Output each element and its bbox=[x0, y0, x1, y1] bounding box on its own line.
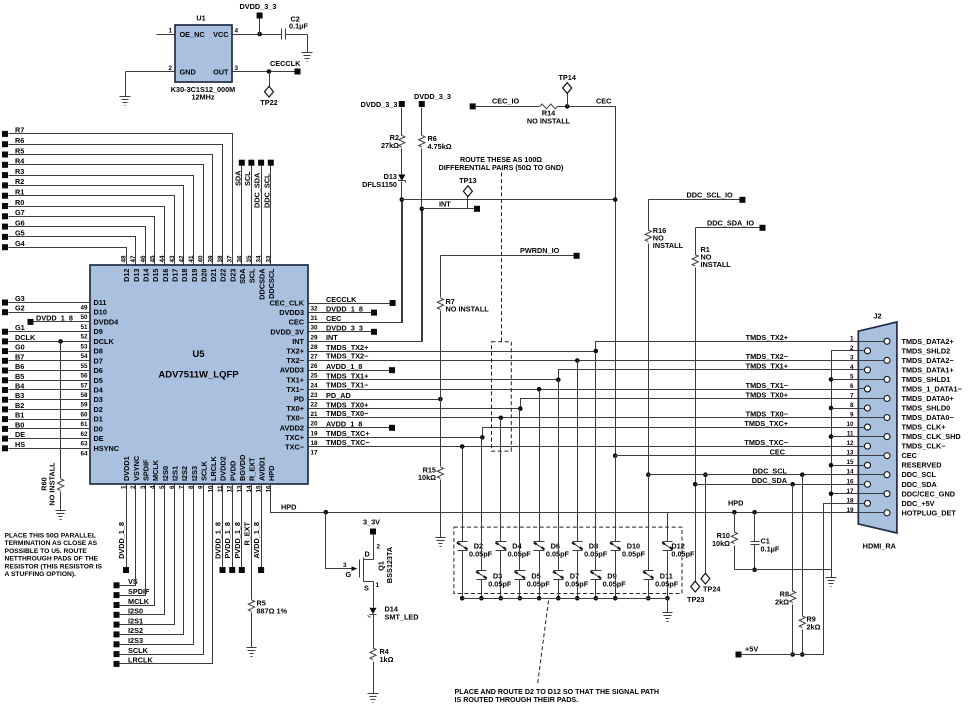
wire I2S3 bbox=[120, 485, 194, 645]
svg-text:MCLK: MCLK bbox=[128, 597, 150, 606]
label TMDS_TX1&#8722; at connector bbox=[746, 381, 788, 390]
pin 18 U5 TXC+ bbox=[285, 433, 318, 447]
wire R15 to ground bbox=[440, 480, 442, 538]
svg-text:TMDS_TXC+: TMDS_TXC+ bbox=[326, 429, 370, 438]
wire R9 bottom bbox=[800, 630, 805, 657]
node R4 bbox=[2, 157, 25, 168]
svg-text:MCLK: MCLK bbox=[151, 459, 160, 481]
svg-text:2: 2 bbox=[130, 485, 137, 489]
power DVDD_1_8 pin31 bbox=[371, 310, 377, 316]
svg-text:DE: DE bbox=[15, 430, 25, 439]
wire INT stub bbox=[422, 200, 475, 209]
wire SCL bbox=[251, 166, 253, 266]
pin 51 U5 DVDD4 bbox=[80, 317, 119, 331]
svg-text:VSYNC: VSYNC bbox=[132, 455, 141, 481]
wire CEC_IO bbox=[476, 106, 540, 108]
pin 50 U5 D10 bbox=[80, 308, 106, 322]
svg-text:52: 52 bbox=[80, 334, 88, 341]
resistor R4 1k bbox=[370, 647, 394, 664]
pin 47 U5 top bbox=[130, 255, 141, 282]
power PVDD_1_8 bbox=[223, 522, 235, 573]
junction CEC row13 bbox=[613, 453, 618, 458]
svg-text:19: 19 bbox=[311, 430, 319, 437]
svg-text:PLACE AND ROUTE D2 TO D12 SO T: PLACE AND ROUTE D2 TO D12 SO THAT THE SI… bbox=[455, 688, 660, 696]
label TMDS_TX0+ at connector bbox=[746, 390, 788, 399]
svg-text:DCLK: DCLK bbox=[94, 337, 115, 346]
wire DDC_SDA_IO bbox=[696, 219, 760, 228]
svg-text:46: 46 bbox=[140, 255, 147, 263]
svg-text:TMDS_DATA1+: TMDS_DATA1+ bbox=[902, 365, 954, 374]
diode D9 0.05pF bbox=[591, 571, 627, 589]
svg-text:TMDS_TX2−: TMDS_TX2− bbox=[746, 352, 788, 361]
svg-text:NETTHROUGH PADS OF THE: NETTHROUGH PADS OF THE bbox=[5, 556, 99, 563]
svg-text:DDC_SDA: DDC_SDA bbox=[902, 480, 938, 489]
svg-text:DDC_+5V: DDC_+5V bbox=[902, 499, 935, 508]
resistor R7 NO INSTALL bbox=[437, 297, 489, 314]
node B7 bbox=[2, 352, 24, 363]
svg-text:BGVDD: BGVDD bbox=[238, 455, 247, 481]
svg-text:D11: D11 bbox=[94, 298, 107, 307]
wire I2S2 bbox=[120, 485, 184, 635]
pin 56 U5 D6 bbox=[80, 366, 102, 380]
pin 13 U5 bottom bbox=[236, 455, 247, 493]
diode D10 0.05pF bbox=[610, 542, 646, 559]
svg-text:TP23: TP23 bbox=[687, 595, 704, 604]
node B6 bbox=[2, 362, 24, 373]
svg-text:27kΩ: 27kΩ bbox=[381, 141, 399, 150]
svg-text:B7: B7 bbox=[15, 352, 24, 361]
junction HPD C1 bbox=[752, 510, 757, 515]
svg-text:SCLK: SCLK bbox=[199, 460, 208, 481]
svg-text:13: 13 bbox=[846, 450, 854, 457]
pin 48 U5 top bbox=[121, 255, 132, 282]
svg-text:19: 19 bbox=[846, 507, 854, 514]
wire D12 column bbox=[667, 513, 669, 542]
wire R4 bbox=[9, 165, 204, 266]
wire D8 to bus bbox=[575, 551, 580, 601]
diode D4 0.05pF bbox=[496, 542, 532, 559]
svg-text:I2S3: I2S3 bbox=[190, 466, 199, 481]
wire D11 to bus bbox=[646, 580, 651, 601]
svg-text:PVDD_1_8: PVDD_1_8 bbox=[223, 522, 232, 559]
pin 1 J2 TMDS_DATA2+ bbox=[850, 335, 954, 346]
svg-text:B5: B5 bbox=[15, 372, 24, 381]
wire U1 pin 3 OUT bbox=[233, 65, 295, 74]
wire D3 column bbox=[481, 438, 483, 571]
svg-text:ADV7511W_LQFP: ADV7511W_LQFP bbox=[158, 370, 239, 381]
svg-text:4: 4 bbox=[149, 485, 156, 489]
svg-text:53: 53 bbox=[80, 343, 88, 350]
wire TMDS_TXC&#8722; bbox=[309, 438, 859, 449]
pin 19 U5 AVDD2 bbox=[280, 423, 318, 437]
ground C2 bbox=[302, 53, 313, 62]
wire B7 bbox=[9, 360, 91, 362]
svg-text:TMDS_TXC+: TMDS_TXC+ bbox=[744, 419, 788, 428]
wire pin13 supply bbox=[241, 485, 243, 568]
testpoint TP22 bbox=[260, 72, 277, 108]
wire R10 top bbox=[728, 499, 743, 533]
power DVDD_3_3 R2 bbox=[361, 100, 405, 136]
wire D7 to bus bbox=[556, 580, 561, 601]
svg-text:0.05pF: 0.05pF bbox=[565, 580, 589, 589]
node I2S3 bbox=[114, 636, 144, 647]
svg-text:DDC_SDA: DDC_SDA bbox=[752, 476, 788, 485]
resistor R6 4.75k bbox=[419, 134, 452, 151]
svg-text:28: 28 bbox=[311, 344, 319, 351]
wire R6 to INT bbox=[420, 149, 425, 342]
node DDC_SCL bbox=[262, 160, 274, 208]
svg-text:TMDS_TX0−: TMDS_TX0− bbox=[326, 409, 368, 418]
svg-text:DIFFERENTIAL PAIRS (50Ω TO GND: DIFFERENTIAL PAIRS (50Ω TO GND) bbox=[439, 164, 564, 172]
svg-text:D18: D18 bbox=[180, 269, 189, 282]
svg-text:CEC: CEC bbox=[902, 451, 918, 460]
pin 33 U5 top bbox=[265, 255, 276, 299]
pin 40 U5 top bbox=[198, 255, 209, 282]
wire DE bbox=[9, 438, 91, 440]
svg-text:48: 48 bbox=[121, 255, 128, 263]
ground shield bbox=[826, 578, 837, 587]
label TMDS_TX1+ at connector bbox=[746, 362, 788, 371]
wire D6 to bus bbox=[537, 551, 542, 601]
wire D7 column bbox=[558, 380, 560, 571]
pin 34 U5 top bbox=[256, 255, 267, 300]
power DVDD_3_3 R6 bbox=[414, 92, 451, 136]
svg-text:NO INSTALL: NO INSTALL bbox=[527, 117, 571, 126]
wire R6 bbox=[9, 145, 223, 266]
pin 61 U5 D1 bbox=[80, 415, 102, 429]
pin 5 U5 bottom bbox=[159, 466, 170, 489]
svg-text:PVDD: PVDD bbox=[228, 461, 237, 481]
wire R7-R15 bbox=[440, 311, 442, 467]
testpoint TP14 bbox=[558, 73, 576, 107]
svg-text:33: 33 bbox=[265, 255, 272, 263]
ground ESD array bbox=[663, 613, 673, 622]
node DDC_SDA_IO bbox=[760, 225, 766, 231]
testpoint TP24 bbox=[701, 573, 721, 593]
pin 62 U5 D0 bbox=[80, 424, 102, 438]
wire pin12 supply bbox=[232, 485, 234, 568]
wire D6 column bbox=[539, 390, 541, 542]
node LRCLK bbox=[114, 656, 154, 667]
svg-text:G1: G1 bbox=[15, 323, 25, 332]
svg-text:OE_NC: OE_NC bbox=[180, 30, 206, 39]
svg-text:PD: PD bbox=[294, 395, 304, 404]
svg-text:U1: U1 bbox=[196, 14, 205, 23]
svg-text:29: 29 bbox=[311, 334, 319, 341]
svg-text:J2: J2 bbox=[873, 311, 881, 320]
svg-text:3: 3 bbox=[850, 354, 854, 361]
pin 19 J2 HOTPLUG_DET bbox=[846, 507, 956, 518]
svg-text:44: 44 bbox=[159, 255, 166, 263]
pin 29 U5 DVDD_3V bbox=[270, 327, 318, 341]
svg-text:0.05pF: 0.05pF bbox=[603, 580, 627, 589]
node CECCLK bbox=[390, 300, 396, 306]
pin 4 J2 TMDS_DATA1+ bbox=[850, 364, 954, 375]
diode D8 0.05pF bbox=[572, 542, 608, 559]
wire +5V rail bbox=[742, 654, 824, 656]
svg-text:16: 16 bbox=[265, 485, 272, 493]
wire I2S1 bbox=[120, 485, 175, 625]
svg-text:HDMI_RA: HDMI_RA bbox=[863, 542, 897, 551]
svg-text:TX1−: TX1− bbox=[286, 385, 304, 394]
wire SPDIF bbox=[120, 485, 146, 596]
svg-text:0.05pF: 0.05pF bbox=[622, 550, 646, 559]
svg-text:1: 1 bbox=[376, 582, 380, 589]
wire G5 bbox=[9, 237, 136, 266]
svg-text:TP13: TP13 bbox=[459, 176, 476, 185]
resistor R9 2k bbox=[799, 615, 820, 632]
node G1 bbox=[2, 323, 25, 335]
svg-text:R6: R6 bbox=[15, 136, 24, 145]
node I2S2 bbox=[114, 626, 144, 637]
svg-text:PLACE THIS 50Ω PARALLEL: PLACE THIS 50Ω PARALLEL bbox=[5, 532, 96, 539]
wire R4 to ground bbox=[373, 662, 375, 694]
svg-text:D2: D2 bbox=[94, 405, 103, 414]
diode D12 0.05pF bbox=[662, 542, 695, 559]
svg-text:TXC+: TXC+ bbox=[285, 433, 304, 442]
svg-text:61: 61 bbox=[80, 421, 88, 428]
wire R1 bbox=[9, 196, 175, 266]
svg-text:887Ω 1%: 887Ω 1% bbox=[257, 607, 288, 616]
wire TMDS_TX0&#8722; bbox=[309, 409, 859, 420]
wire D5 to bus bbox=[518, 580, 523, 601]
svg-text:22: 22 bbox=[311, 402, 319, 409]
svg-text:INT: INT bbox=[292, 337, 304, 346]
svg-text:TMDS_TX2+: TMDS_TX2+ bbox=[326, 343, 368, 352]
dashed leader diff pairs bbox=[501, 173, 503, 342]
wire AVDD_1_8 pin26 bbox=[309, 362, 390, 371]
wire DDC_SCL bbox=[270, 166, 272, 266]
svg-text:0.1µF: 0.1µF bbox=[761, 545, 780, 554]
pin 35 U5 top bbox=[246, 255, 257, 283]
pin 7 J2 TMDS_DATA0+ bbox=[850, 392, 954, 403]
svg-text:I2S3: I2S3 bbox=[128, 636, 143, 645]
wire U1 pin 4 VCC bbox=[233, 28, 282, 37]
svg-text:20: 20 bbox=[311, 421, 319, 428]
wire B6 bbox=[9, 370, 91, 372]
svg-text:CEC: CEC bbox=[326, 314, 342, 323]
wire D2 column bbox=[462, 447, 464, 542]
svg-text:38: 38 bbox=[217, 255, 224, 263]
svg-text:HPD: HPD bbox=[281, 503, 296, 512]
node CEC_IO bbox=[470, 97, 520, 110]
wire R3 bbox=[9, 176, 194, 266]
svg-text:3: 3 bbox=[235, 65, 239, 72]
testpoint TP13 bbox=[459, 176, 476, 209]
svg-text:24: 24 bbox=[311, 382, 319, 389]
svg-text:TMDS_TX2−: TMDS_TX2− bbox=[326, 352, 368, 361]
svg-text:DVDD4: DVDD4 bbox=[94, 317, 120, 326]
svg-text:SPDIF: SPDIF bbox=[142, 459, 151, 481]
svg-text:DVDD3: DVDD3 bbox=[279, 308, 304, 317]
svg-text:G7: G7 bbox=[15, 208, 25, 217]
wire CEC pin30 bbox=[309, 200, 403, 324]
svg-text:+5V: +5V bbox=[745, 645, 758, 654]
node DE bbox=[2, 430, 25, 442]
wire bus to ground bbox=[667, 599, 669, 613]
wire shield to ground bbox=[831, 570, 833, 578]
svg-text:G: G bbox=[346, 570, 352, 579]
wire TMDS_TX1&#8722; bbox=[309, 380, 859, 391]
wire D10 column bbox=[615, 456, 617, 542]
svg-text:45: 45 bbox=[149, 255, 156, 263]
pin 26 U5 TX2&#8722; bbox=[286, 356, 318, 370]
svg-text:NO INSTALL: NO INSTALL bbox=[48, 462, 57, 506]
wire G4 bbox=[9, 248, 127, 266]
svg-text:VS: VS bbox=[128, 577, 138, 586]
wire R8 bottom bbox=[790, 605, 795, 657]
wire D4 column bbox=[500, 418, 502, 542]
svg-text:TMDS_TX1+: TMDS_TX1+ bbox=[326, 372, 368, 381]
node VS bbox=[114, 577, 138, 588]
svg-text:17: 17 bbox=[311, 450, 319, 457]
svg-text:HSYNC: HSYNC bbox=[94, 444, 120, 453]
svg-text:DVDD_1_8: DVDD_1_8 bbox=[117, 522, 126, 559]
wire G1 bbox=[9, 331, 91, 333]
svg-text:INSTALL: INSTALL bbox=[701, 260, 732, 269]
pin 54 U5 D8 bbox=[80, 347, 102, 361]
svg-text:PWRDN_IO: PWRDN_IO bbox=[520, 246, 560, 255]
wire D9 to bus bbox=[594, 580, 599, 601]
svg-text:34: 34 bbox=[256, 255, 263, 263]
wire R1 to DDC_SDA bbox=[693, 268, 698, 582]
node G2 bbox=[2, 304, 25, 315]
svg-text:2: 2 bbox=[850, 345, 854, 352]
svg-text:0.05pF: 0.05pF bbox=[527, 580, 551, 589]
wire B5 bbox=[9, 380, 91, 382]
node R7 bbox=[2, 126, 24, 137]
svg-text:25: 25 bbox=[311, 373, 319, 380]
svg-text:TMDS_TX2+: TMDS_TX2+ bbox=[746, 333, 788, 342]
svg-text:TX0+: TX0+ bbox=[286, 404, 304, 413]
pin 25 U5 AVDD3 bbox=[280, 366, 318, 380]
svg-text:SDA: SDA bbox=[233, 170, 242, 186]
junction CEC-link bbox=[613, 197, 618, 202]
svg-text:TMDS_DATA2+: TMDS_DATA2+ bbox=[902, 337, 954, 346]
svg-text:37: 37 bbox=[227, 255, 234, 263]
svg-text:D13: D13 bbox=[132, 269, 141, 282]
pin 11 U5 bottom bbox=[217, 456, 228, 492]
node B1 bbox=[2, 411, 24, 422]
pin 58 U5 D4 bbox=[80, 385, 103, 399]
svg-text:D15: D15 bbox=[151, 269, 160, 282]
connector J2 HDMI_RA bbox=[858, 311, 897, 550]
svg-text:62: 62 bbox=[80, 431, 88, 438]
pin 64 U5 HSYNC bbox=[80, 444, 119, 458]
svg-text:VCC: VCC bbox=[213, 30, 229, 39]
power DVDD_3_3 U1 bbox=[240, 2, 277, 35]
svg-text:2kΩ: 2kΩ bbox=[775, 597, 789, 606]
svg-text:10kΩ: 10kΩ bbox=[712, 539, 730, 548]
pin 13 J2 CEC bbox=[846, 450, 917, 461]
junction HPD gate bbox=[324, 510, 329, 515]
pin 1 U5 bottom bbox=[121, 456, 132, 489]
svg-text:60: 60 bbox=[80, 411, 88, 418]
wire TMDS_TX2+ bbox=[309, 342, 859, 354]
wire CEC link bbox=[402, 199, 616, 201]
wire Q1 gate bbox=[326, 513, 358, 580]
wire B0 bbox=[9, 428, 91, 430]
power AVDD_1_8 pin26 bbox=[389, 367, 395, 373]
svg-text:43: 43 bbox=[169, 255, 176, 263]
svg-text:10: 10 bbox=[207, 485, 214, 493]
svg-text:11: 11 bbox=[847, 431, 854, 438]
ground R4 bbox=[368, 694, 379, 703]
svg-text:B3: B3 bbox=[15, 391, 24, 400]
pin 5 J2 TMDS_SHLD1 bbox=[850, 373, 950, 384]
wire R16 to DDC_SCL bbox=[646, 244, 651, 478]
svg-text:CECCLK: CECCLK bbox=[326, 295, 357, 304]
node G0 bbox=[2, 343, 25, 355]
svg-text:RESERVED: RESERVED bbox=[902, 461, 942, 470]
svg-text:2: 2 bbox=[168, 65, 172, 72]
label TMDS_TXC&#8722; at connector bbox=[744, 438, 788, 447]
svg-text:INT: INT bbox=[326, 333, 338, 342]
node DDC_SDA bbox=[253, 160, 265, 208]
dashed leader ESD note bbox=[538, 601, 549, 685]
svg-text:TMDS_TX0+: TMDS_TX0+ bbox=[326, 400, 368, 409]
svg-text:R_EXT: R_EXT bbox=[248, 457, 257, 481]
wire R7 bbox=[9, 134, 233, 266]
wire RESERVED row15 bbox=[832, 465, 859, 467]
node SPDIF bbox=[114, 587, 151, 598]
pin 28 U5 INT bbox=[292, 337, 318, 351]
svg-text:49: 49 bbox=[80, 305, 88, 312]
wire MCLK bbox=[120, 485, 155, 606]
pin 8 J2 TMDS_SHLD0 bbox=[850, 402, 950, 413]
node R5 bbox=[2, 146, 24, 157]
pin 16 U5 bottom bbox=[265, 466, 276, 493]
svg-text:U5: U5 bbox=[192, 349, 205, 360]
svg-text:I2S0: I2S0 bbox=[161, 466, 170, 481]
svg-text:DVDD_3_3: DVDD_3_3 bbox=[326, 324, 363, 333]
svg-text:5: 5 bbox=[850, 373, 854, 380]
diode D11 0.05pF bbox=[643, 571, 679, 589]
pin 12 J2 TMDS_CLK&#8722; bbox=[846, 440, 945, 451]
wire G3 bbox=[9, 302, 91, 304]
svg-text:G4: G4 bbox=[15, 239, 26, 248]
diode D3 0.05pF bbox=[476, 571, 512, 589]
svg-text:AVDD_1_8: AVDD_1_8 bbox=[252, 522, 261, 558]
wire Q1 source bbox=[373, 582, 375, 608]
note ESD routing bbox=[455, 688, 660, 704]
svg-text:4: 4 bbox=[850, 364, 854, 371]
svg-text:G2: G2 bbox=[15, 304, 25, 313]
wire R5 bbox=[9, 155, 213, 266]
svg-text:D10: D10 bbox=[94, 308, 107, 317]
svg-text:DE: DE bbox=[94, 434, 104, 443]
pin 53 U5 DCLK bbox=[80, 337, 114, 351]
svg-text:POSSIBLE TO U5. ROUTE: POSSIBLE TO U5. ROUTE bbox=[5, 548, 88, 555]
node SCL bbox=[243, 160, 254, 186]
svg-text:LRCLK: LRCLK bbox=[209, 456, 218, 481]
svg-text:D0: D0 bbox=[94, 424, 103, 433]
wire D3 to bus bbox=[479, 580, 484, 601]
svg-text:0.05pF: 0.05pF bbox=[671, 550, 695, 559]
svg-text:D23: D23 bbox=[228, 269, 237, 282]
svg-text:18: 18 bbox=[311, 440, 319, 447]
svg-text:A STUFFING OPTION).: A STUFFING OPTION). bbox=[5, 571, 77, 578]
pin 57 U5 D5 bbox=[80, 376, 102, 390]
pin 38 U5 top bbox=[217, 255, 228, 282]
svg-text:D20: D20 bbox=[199, 269, 208, 282]
svg-text:D3: D3 bbox=[94, 395, 103, 404]
svg-text:R3: R3 bbox=[15, 167, 24, 176]
wire shield rows bbox=[832, 380, 859, 437]
svg-text:TP24: TP24 bbox=[703, 585, 721, 594]
wire B3 bbox=[9, 399, 91, 401]
pin 20 U5 TX0&#8722; bbox=[286, 414, 318, 428]
